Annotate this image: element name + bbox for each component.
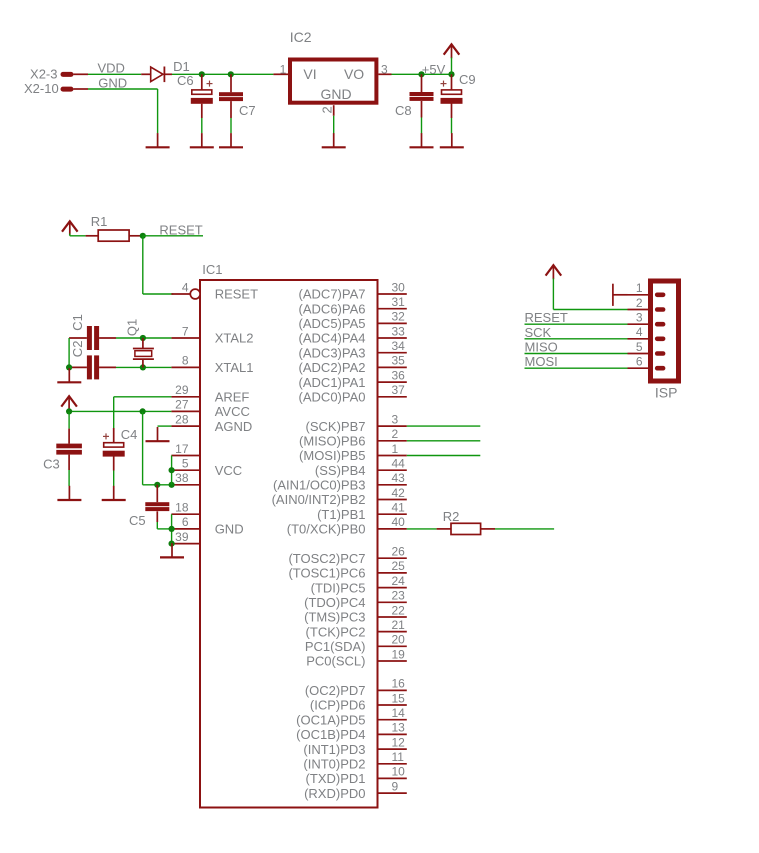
wire SPI net at row 10 [407, 440, 481, 442]
IC1 pin 4 [171, 289, 200, 299]
svg-text:28: 28 [175, 412, 189, 426]
IC1 pin 38 [171, 484, 200, 486]
svg-text:(TCK)PC2: (TCK)PC2 [306, 624, 366, 639]
ISP pad pin 5 [655, 351, 666, 356]
IC1 pin 7 [171, 337, 200, 339]
capacitor C1 (horizontal) [69, 326, 116, 350]
IC1 pin 33 (ADC4)PA4 [378, 337, 407, 339]
svg-text:AREF: AREF [215, 390, 250, 405]
wire GND from X2-10 [88, 88, 158, 90]
IC1 pin 32 (ADC5)PA5 [378, 322, 407, 324]
wire AVCC down to VCC pins [142, 411, 144, 484]
svg-text:24: 24 [392, 574, 406, 588]
svg-text:GND: GND [320, 86, 351, 102]
capacitor C2 (horizontal) [69, 355, 116, 379]
svg-text:43: 43 [392, 471, 406, 485]
wire IC2 GND pin to ground [333, 116, 335, 134]
svg-text:8: 8 [182, 354, 189, 368]
IC1 pin 3 (SCK)PB7 [378, 425, 407, 427]
wire C4 to ground [113, 471, 115, 487]
IC1 pin 12 (INT1)PD3 [378, 748, 407, 750]
IC1 pin 29 [171, 396, 200, 398]
IC1 pin 20 PC1(SDA) [378, 645, 407, 647]
ground crystal caps [57, 368, 81, 382]
IC1 pin 9 (RXD)PD0 [378, 792, 407, 794]
svg-text:(RXD)PD0: (RXD)PD0 [304, 786, 365, 801]
capacitor C7 [219, 92, 243, 101]
IC1 pin 1 (MOSI)PB5 [378, 455, 407, 457]
svg-text:1: 1 [636, 281, 643, 295]
IC1 pin 37 (ADC0)PA0 [378, 396, 407, 398]
wire SPI net at row 9 [407, 425, 481, 427]
wire AVCC rail [69, 410, 171, 412]
capacitor C4 lead [113, 428, 115, 443]
capacitor C5 lead [156, 485, 158, 502]
svg-text:Q1: Q1 [125, 319, 140, 336]
svg-text:PC0(SCL): PC0(SCL) [306, 654, 365, 669]
svg-text:36: 36 [392, 368, 406, 382]
diode D1 [141, 67, 172, 83]
svg-text:29: 29 [175, 383, 189, 397]
junction XTAL1/Q1 [140, 364, 146, 370]
svg-text:PC1(SDA): PC1(SDA) [305, 639, 366, 654]
svg-text:ISP: ISP [655, 385, 678, 401]
svg-text:(AIN1/OC0)PB3: (AIN1/OC0)PB3 [273, 478, 365, 493]
svg-text:C7: C7 [239, 103, 256, 118]
IC1 pin 22 (TMS)PC3 [378, 616, 407, 618]
junction C5 top [154, 482, 160, 488]
svg-text:16: 16 [392, 677, 406, 691]
svg-text:6: 6 [636, 355, 643, 369]
IC1 pin 39 [171, 543, 200, 545]
svg-text:AGND: AGND [215, 419, 253, 434]
ISP pin 5 stub [628, 353, 652, 355]
svg-text:VDD: VDD [98, 60, 125, 75]
svg-text:XTAL2: XTAL2 [215, 331, 254, 346]
svg-text:25: 25 [392, 559, 406, 573]
svg-text:VI: VI [303, 66, 316, 82]
ground IC2 [322, 133, 346, 147]
wire ISP RESET [525, 323, 628, 325]
svg-text:39: 39 [175, 530, 189, 544]
svg-text:XTAL1: XTAL1 [215, 360, 254, 375]
IC1 pin 27 [171, 410, 200, 412]
svg-text:34: 34 [392, 339, 406, 353]
ground C3 [57, 486, 81, 500]
ISP pin 1 stub [628, 294, 652, 296]
wire C5 bottom [156, 522, 158, 529]
svg-text:6: 6 [182, 515, 189, 529]
wire RESET net [143, 235, 203, 237]
svg-text:38: 38 [175, 471, 189, 485]
IC1 pin 16 (OC2)PD7 [378, 689, 407, 691]
connector ISP [651, 281, 679, 381]
IC1 pin 30 (ADC7)PA7 [378, 293, 407, 295]
IC1 pin 17 [171, 455, 200, 457]
svg-text:RESET: RESET [215, 287, 258, 302]
svg-text:20: 20 [392, 633, 406, 647]
svg-text:AVCC: AVCC [215, 404, 250, 419]
svg-text:(ADC6)PA6: (ADC6)PA6 [299, 301, 366, 316]
svg-text:MISO: MISO [525, 340, 558, 355]
svg-text:11: 11 [392, 750, 405, 764]
crystal Q1 [133, 338, 154, 367]
wire RESET down to IC1 [142, 236, 144, 294]
svg-text:14: 14 [392, 706, 406, 720]
IC1 pin 34 (ADC3)PA3 [378, 352, 407, 354]
svg-text:C4: C4 [121, 427, 138, 442]
junction +5V/C9 [448, 71, 454, 77]
svg-text:35: 35 [392, 354, 406, 368]
ground C6 [190, 133, 214, 147]
wire C7 to ground [230, 118, 232, 133]
wire C8 to ground [421, 118, 423, 134]
svg-text:GND: GND [215, 522, 244, 537]
svg-text:3: 3 [392, 412, 399, 426]
connector pad X2-10 [61, 87, 89, 92]
wire C5 to GND pins [157, 528, 171, 530]
IC1 pin 21 (TCK)PC2 [378, 631, 407, 633]
IC1 pin 5 [171, 469, 200, 471]
wire to VCC pin 38 [143, 484, 172, 486]
svg-text:(TDO)PC4: (TDO)PC4 [304, 595, 365, 610]
wire XTAL1 net [116, 366, 171, 368]
junction VDD/C7 [228, 71, 234, 77]
svg-text:+5V: +5V [422, 62, 446, 77]
svg-text:(MISO)PB6: (MISO)PB6 [299, 434, 365, 449]
ISP pad pin 1 [655, 293, 666, 298]
svg-text:(TOSC2)PC7: (TOSC2)PC7 [288, 551, 365, 566]
svg-text:41: 41 [392, 501, 406, 515]
junction pin6 [169, 526, 175, 532]
IC1 pin 35 (ADC2)PA2 [378, 366, 407, 368]
junction pin39 [169, 541, 175, 547]
IC1 pin 40 (T0/XCK)PB0 [378, 528, 407, 530]
IC1 pin 25 (TOSC1)PC6 [378, 572, 407, 574]
svg-text:33: 33 [392, 324, 406, 338]
svg-text:(ADC3)PA3: (ADC3)PA3 [299, 345, 366, 360]
IC1 pin 18 [171, 513, 200, 515]
supply VCC arrow ISP [546, 265, 562, 279]
wire ISP MOSI [525, 367, 628, 369]
svg-text:C8: C8 [395, 103, 412, 118]
svg-text:4: 4 [636, 325, 643, 339]
svg-text:21: 21 [392, 618, 406, 632]
svg-text:(ADC5)PA5: (ADC5)PA5 [299, 316, 366, 331]
capacitor C6 lead [201, 74, 203, 90]
IC1 pin 14 (OC1A)PD5 [378, 719, 407, 721]
svg-text:26: 26 [392, 545, 406, 559]
svg-text:(ADC4)PA4: (ADC4)PA4 [299, 331, 366, 346]
wire GND down to ground [157, 89, 159, 133]
svg-text:C9: C9 [459, 72, 476, 87]
IC1 pin 15 (ICP)PD6 [378, 704, 407, 706]
svg-text:(ADC1)PA1: (ADC1)PA1 [299, 375, 366, 390]
capacitor C9 (polarized) [441, 81, 463, 104]
svg-text:(ICP)PD6: (ICP)PD6 [310, 698, 366, 713]
wire arrow to R1 row [69, 234, 71, 236]
svg-text:IC1: IC1 [202, 262, 222, 277]
svg-text:SCK: SCK [525, 325, 552, 340]
junction XTAL2/Q1 [140, 335, 146, 341]
svg-text:30: 30 [392, 280, 406, 294]
svg-text:2: 2 [392, 427, 399, 441]
svg-text:9: 9 [392, 779, 399, 793]
wire from R2 right [495, 528, 554, 530]
capacitor C6 (polarized) [191, 81, 213, 104]
resistor R1 [86, 230, 143, 241]
resistor R2 [437, 523, 495, 534]
microcontroller IC1 [200, 280, 378, 808]
ISP pin 1 stub extension [613, 284, 628, 306]
svg-text:2: 2 [320, 106, 335, 113]
svg-text:17: 17 [175, 442, 189, 456]
junction pin38/pin5 drop [169, 482, 175, 488]
svg-text:23: 23 [392, 589, 406, 603]
junction RESET [140, 233, 146, 239]
IC1 pin 28 [171, 425, 200, 427]
ISP pin 3 stub [628, 323, 652, 325]
IC1 pin 43 (AIN1/OC0)PB3 [378, 484, 407, 486]
svg-text:15: 15 [392, 691, 406, 705]
ISP pad pin 6 [655, 366, 666, 371]
svg-text:31: 31 [392, 295, 406, 309]
svg-text:(TDI)PC5: (TDI)PC5 [311, 580, 366, 595]
capacitor C3 [56, 444, 82, 455]
svg-text:19: 19 [392, 647, 406, 661]
capacitor C9 lead [451, 74, 453, 90]
svg-text:2: 2 [636, 296, 643, 310]
svg-text:(T0/XCK)PB0: (T0/XCK)PB0 [287, 522, 366, 537]
wire AREF net [114, 396, 172, 398]
IC1 pin 19 PC0(SCL) [378, 660, 407, 662]
IC1 pin 6 [171, 528, 200, 530]
svg-text:44: 44 [392, 457, 406, 471]
svg-text:5: 5 [636, 340, 643, 354]
svg-text:C1: C1 [70, 314, 85, 331]
svg-text:VCC: VCC [215, 463, 242, 478]
ISP pad pin 3 [655, 322, 666, 327]
svg-text:(MOSI)PB5: (MOSI)PB5 [299, 448, 365, 463]
svg-text:X2-10: X2-10 [24, 81, 59, 96]
capacitor C7 lead [230, 74, 232, 92]
supply +5V arrow [444, 44, 460, 58]
IC1 pin 2 (MISO)PB6 [378, 440, 407, 442]
wire ISP SCK [525, 338, 628, 340]
wire VCC to R1 [70, 235, 86, 237]
svg-text:R1: R1 [91, 214, 108, 229]
capacitor C8 lead [421, 74, 423, 92]
ground C7 [219, 133, 243, 147]
junction +5V/C8 [418, 71, 424, 77]
wire ISP VCC down [552, 278, 554, 309]
IC1 pin 31 (ADC6)PA6 [378, 308, 407, 310]
connector pad X2-3 [61, 72, 89, 77]
svg-text:(SS)PB4: (SS)PB4 [315, 463, 366, 478]
svg-text:VO: VO [344, 66, 364, 82]
wire VCC pins 17-5-38 link [171, 456, 173, 485]
ground IC1 GND pins [160, 543, 184, 557]
wire GND pins 18-6-39 link [171, 514, 173, 543]
wire ISP MISO [525, 353, 628, 355]
svg-text:R2: R2 [443, 509, 460, 524]
wire XTAL2 net [116, 337, 171, 339]
junction AVCC/VCC drop [140, 408, 146, 414]
ISP pin 2 stub [628, 309, 652, 311]
svg-text:(AIN0/INT2)PB2: (AIN0/INT2)PB2 [272, 492, 366, 507]
wire C1-C2 ground link [68, 338, 70, 367]
wire PB0 to R2 [407, 528, 437, 530]
IC2 pin 2 [333, 105, 335, 116]
svg-text:(OC1A)PD5: (OC1A)PD5 [296, 712, 365, 727]
wire AREF down to C4 [113, 397, 115, 428]
svg-text:4: 4 [182, 280, 189, 294]
svg-text:C2: C2 [70, 341, 85, 358]
svg-text:(ADC7)PA7: (ADC7)PA7 [299, 287, 366, 302]
svg-text:(SCK)PB7: (SCK)PB7 [306, 419, 366, 434]
ground C8 [410, 133, 434, 147]
junction VDD/C6 [199, 71, 205, 77]
wire ISP pin2 VCC [553, 309, 627, 311]
wire +5V from IC2 VO [392, 73, 452, 75]
svg-text:IC2: IC2 [290, 29, 312, 45]
wire VDD diode to IC2 VI [172, 73, 273, 75]
svg-text:12: 12 [392, 735, 406, 749]
wire RESET to pin 4 [143, 293, 174, 295]
wire C6 to ground [201, 118, 203, 133]
IC1 pin 24 (TDI)PC5 [378, 587, 407, 589]
ground AGND [146, 427, 170, 441]
wire AVCC to C3 [68, 411, 70, 428]
IC1 pin 36 (ADC1)PA1 [378, 381, 407, 383]
IC1 pin 23 (TDO)PC4 [378, 601, 407, 603]
svg-text:(TMS)PC3: (TMS)PC3 [304, 610, 365, 625]
svg-text:C5: C5 [129, 513, 146, 528]
svg-text:(T1)PB1: (T1)PB1 [317, 507, 365, 522]
IC2 pin 3 VO [378, 73, 391, 75]
junction C2/ground [66, 364, 72, 370]
svg-text:13: 13 [392, 721, 406, 735]
svg-text:MOSI: MOSI [525, 354, 558, 369]
svg-text:(INT0)PD2: (INT0)PD2 [303, 757, 365, 772]
ground GND input [146, 133, 170, 147]
capacitor C4 (polarized) [103, 433, 125, 456]
svg-text:(TOSC1)PC6: (TOSC1)PC6 [288, 566, 365, 581]
IC1 pin 44 (SS)PB4 [378, 469, 407, 471]
svg-text:18: 18 [175, 501, 189, 515]
IC1 pin 26 (TOSC2)PC7 [378, 557, 407, 559]
IC1 pin 8 [171, 366, 200, 368]
junction AVCC/C3 [66, 408, 72, 414]
supply VCC arrow at R1 [62, 221, 78, 235]
svg-text:X2-3: X2-3 [30, 66, 57, 81]
svg-text:37: 37 [392, 383, 406, 397]
svg-text:(OC2)PD7: (OC2)PD7 [305, 683, 366, 698]
svg-text:C3: C3 [43, 457, 60, 472]
capacitor C8 [410, 92, 434, 101]
IC1 pin 10 (TXD)PD1 [378, 777, 407, 779]
ground C9 [440, 133, 464, 147]
svg-text:(INT1)PD3: (INT1)PD3 [303, 742, 365, 757]
svg-text:C6: C6 [177, 73, 194, 88]
wire C3 to ground [68, 470, 70, 486]
wire AGND net [158, 425, 172, 427]
svg-text:(ADC2)PA2: (ADC2)PA2 [299, 360, 366, 375]
IC1 pin 11 (INT0)PD2 [378, 763, 407, 765]
wire +5V arrow stem [451, 58, 453, 75]
ISP pin 4 stub [628, 338, 652, 340]
svg-text:22: 22 [392, 603, 406, 617]
svg-text:GND: GND [98, 75, 127, 90]
svg-text:(ADC0)PA0: (ADC0)PA0 [299, 390, 366, 405]
svg-text:7: 7 [182, 324, 189, 338]
capacitor C5 [145, 502, 169, 511]
supply VCC arrow analog [61, 396, 77, 410]
svg-text:RESET: RESET [159, 222, 202, 237]
svg-text:10: 10 [392, 765, 406, 779]
IC2 pin 1 VI [273, 73, 288, 75]
svg-text:(OC1B)PD4: (OC1B)PD4 [296, 727, 365, 742]
svg-text:27: 27 [175, 398, 189, 412]
ISP pad pin 4 [655, 337, 666, 342]
svg-text:1: 1 [392, 442, 399, 456]
svg-text:40: 40 [392, 515, 406, 529]
ground C4 [102, 486, 126, 500]
IC1 pin 42 (AIN0/INT2)PB2 [378, 499, 407, 501]
svg-text:RESET: RESET [525, 310, 568, 325]
wire VDD from X2-3 to D1 [88, 73, 141, 75]
IC1 pin 41 (T1)PB1 [378, 513, 407, 515]
ISP pin 6 stub [628, 367, 652, 369]
wire SPI net at row 11 [407, 455, 481, 457]
svg-text:(TXD)PD1: (TXD)PD1 [306, 771, 366, 786]
svg-text:5: 5 [182, 457, 189, 471]
junction pin5 [169, 467, 175, 473]
IC1 pin 13 (OC1B)PD4 [378, 733, 407, 735]
svg-text:3: 3 [636, 311, 643, 325]
svg-text:D1: D1 [173, 59, 190, 74]
svg-text:3: 3 [381, 62, 388, 76]
svg-text:42: 42 [392, 486, 406, 500]
wire arrow stem analog [68, 410, 70, 412]
svg-text:32: 32 [392, 310, 406, 324]
ISP pad pin 2 [655, 307, 666, 312]
wire C9 to ground [451, 118, 453, 133]
svg-text:1: 1 [280, 62, 287, 76]
voltage regulator IC2 [290, 60, 376, 103]
